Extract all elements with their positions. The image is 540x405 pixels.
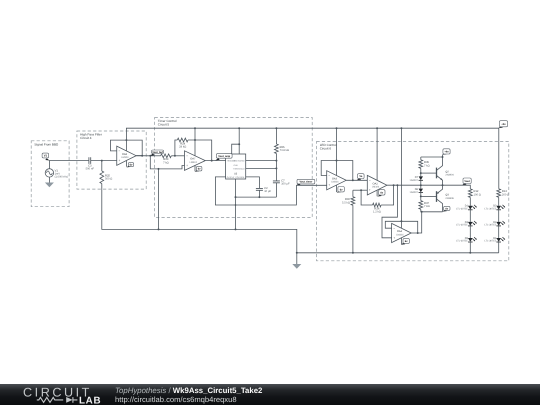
section box LED Control Circuit 6 [317, 142, 509, 261]
resistor R12 100 &#937; [468, 189, 480, 198]
node label Vout [462, 178, 471, 185]
transistor Q2 2N3904 [437, 155, 455, 186]
op-amp OA7 LM324 [185, 151, 206, 171]
wire bus tap to OA4 plus [382, 185, 397, 238]
wire OA2 V+ stub [376, 128, 378, 180]
junction Q3 base node [420, 195, 422, 197]
junction ground dropper [158, 168, 160, 170]
wire U3 OUTPUT to Vout_timer [215, 177, 296, 205]
svg-text:10 µF: 10 µF [264, 190, 271, 193]
junction OA4 V+ on rail [400, 127, 402, 129]
svg-text:OA8: OA8 [122, 153, 128, 156]
wire R35 lead top [420, 157, 422, 160]
wire R35 to Q2 base node [420, 168, 422, 176]
wire C7 to ground wire [275, 183, 277, 197]
wire ground stub [296, 253, 298, 264]
junction OA8 V+ on feedback [125, 139, 127, 141]
wire Vout_buf to R23 [150, 155, 160, 157]
svg-text:−: − [369, 178, 371, 182]
LED D5 LTL-307EE [456, 237, 477, 243]
power label 6v at OA3 [337, 187, 345, 193]
LED D4 LTL-307EE [484, 221, 505, 227]
svg-text:500 Ω: 500 Ω [105, 178, 112, 181]
svg-text:2N3904: 2N3904 [445, 174, 454, 177]
wire R12 to D1 [469, 197, 471, 205]
voltage source V1 [45, 169, 68, 179]
svg-text:+: + [186, 164, 188, 168]
op-amp OA2 LM324 [367, 175, 387, 195]
wire V1 to C3 [49, 161, 89, 169]
svg-text:LTL-307EE: LTL-307EE [484, 240, 496, 243]
node label Vout_timer [296, 179, 315, 185]
junction OA4 tap on bus [396, 184, 398, 186]
svg-text:−: − [118, 149, 120, 153]
svg-text:1N4007: 1N4007 [410, 179, 419, 182]
svg-text:GND: GND [233, 164, 238, 167]
wire OA7 V- stub [194, 165, 196, 171]
op-amp OA3 LM324 [327, 171, 347, 190]
junction OA4 output at R37 wire [421, 211, 423, 213]
svg-text:OA7: OA7 [190, 158, 196, 161]
power label +9v at rail end [499, 121, 508, 128]
wire OA8 V+ stub [125, 140, 127, 151]
wire C3 to R25 node [91, 160, 117, 162]
ground symbol main [292, 264, 301, 269]
svg-text:+9v: +9v [501, 123, 506, 126]
svg-text:73.8 kΩ: 73.8 kΩ [280, 149, 289, 152]
wire R23 to OA7 minus [171, 155, 184, 157]
svg-text:200 Ω: 200 Ω [502, 193, 509, 196]
svg-text:LM324: LM324 [396, 233, 404, 236]
wire D4 to D6 [498, 226, 500, 238]
svg-text:Vout_amp: Vout_amp [218, 155, 230, 158]
svg-text:−: − [186, 154, 188, 158]
junction R35 top at collector [442, 156, 444, 158]
wire U3 DISCHARGE to R26 node [246, 160, 277, 162]
resistor R36 1.2 k&#937; [373, 203, 382, 213]
wire OA8 V- stub [125, 161, 127, 167]
svg-text:+: + [393, 236, 395, 240]
wire C2 to ground wire [258, 190, 260, 197]
wire OA7 output to 555 TRIGGER [205, 160, 225, 162]
footer bar [0, 384, 540, 405]
svg-text:+9v: +9v [444, 150, 449, 153]
svg-text:DISCHARGE: DISCHARGE [233, 160, 245, 163]
wire Vout_timer to OA3 plus [296, 184, 326, 186]
svg-text:LTL-307EE: LTL-307EE [484, 208, 496, 211]
wire R30 column top [352, 190, 354, 197]
op-amp OA4 LM324 [392, 223, 412, 242]
wire R36 feedback right [381, 185, 394, 205]
svg-text:7 kΩ: 7 kΩ [424, 164, 430, 167]
resistor R23 7 k&#937; [161, 154, 172, 164]
node label V1 [42, 153, 50, 160]
node label Vout_amp [215, 154, 232, 161]
capacitor C2 10 &#181;F [256, 187, 272, 193]
resistor R35 7 k&#937; [419, 160, 430, 169]
svg-text:OA2: OA2 [373, 182, 379, 185]
LED D1 LTL-307EE [456, 205, 477, 211]
LED D6 LTL-307EE [484, 237, 505, 243]
wire OA4 feedback loop [385, 221, 417, 233]
junction C2 ground [258, 196, 260, 198]
wire R26 to C7 [275, 154, 277, 181]
wire R13 to D2 [498, 197, 500, 206]
svg-text:LM324: LM324 [190, 161, 198, 164]
junction OA7 V+ on rail [194, 127, 196, 129]
wire D8 to Q3 base node [420, 193, 422, 201]
svg-text:Signal From BBD: Signal From BBD [34, 142, 59, 146]
wire U3 reset L-bend [232, 144, 240, 154]
plot url text [115, 395, 237, 404]
resistor R37 7 k&#937; [419, 201, 430, 210]
svg-text:1.2 kΩ: 1.2 kΩ [373, 211, 381, 214]
junction OA3 output feedback [352, 179, 354, 181]
wire R24 to OA7 output [188, 140, 212, 161]
svg-text:LTL-307EE: LTL-307EE [456, 224, 468, 227]
resistor R25 500 &#937; [100, 171, 112, 184]
svg-text:+: + [118, 159, 120, 163]
wire D6 to return rail [498, 242, 500, 253]
junction OA7 output feedback [211, 160, 213, 162]
wire R37 bottom to 6v [421, 209, 443, 212]
svg-text:7 kΩ: 7 kΩ [163, 161, 169, 164]
junction discharge at R26 line [275, 160, 277, 162]
diode D8 1N4007 [410, 188, 423, 194]
junction OA3 V+ crossing feedback [336, 160, 338, 162]
junction OA8 output feedback [141, 155, 143, 157]
power label +9v at Q2 [442, 149, 450, 155]
timer IC U3 555 [226, 154, 246, 179]
wire R35 top to Q2 collector line [421, 156, 443, 158]
section box High Pass Filter Circuit 4 [77, 131, 146, 189]
capacitor C7 100 &#181;F [273, 180, 290, 186]
resistor R30 5.5 k&#937; [342, 197, 355, 206]
junction U3 ground on long bus [235, 228, 237, 230]
wire R24 left vertical [175, 140, 177, 156]
op-amp OA8 LM324 [117, 146, 136, 165]
resistor R26 73.8 k&#937; [275, 144, 289, 154]
svg-text:+: + [369, 188, 371, 192]
svg-text:−: − [393, 226, 395, 230]
power label 6v at OA7 [195, 166, 202, 171]
wire V1 to ground [48, 177, 50, 182]
wire D7 to bus [420, 180, 422, 188]
node label Va [357, 174, 364, 180]
wire R30 to LED return rail [352, 205, 354, 253]
svg-text:LTL-307EE: LTL-307EE [484, 224, 496, 227]
wire U3 THRESHOLD to R26 node [246, 167, 277, 169]
wire +9v top rail [126, 128, 498, 189]
junction U3 top pins [238, 143, 240, 145]
transistor Q3 2N3906 [437, 185, 455, 212]
wire OA2 plus input [353, 189, 367, 191]
junction OA2 V+ on rail [376, 127, 378, 129]
svg-text:Circuit 4: Circuit 4 [80, 136, 92, 140]
LED D2 LTL-307EE [484, 205, 505, 211]
wire OA3 V+ stub [336, 128, 338, 175]
wire Q3 base [421, 195, 437, 197]
wire R36 feedback left [361, 190, 373, 205]
wire timer local ground [236, 196, 277, 198]
junction OA4 output feedback [417, 232, 419, 234]
resistor R13 200 &#937; [497, 189, 509, 198]
section box Timer Control Circuit 5 [155, 118, 313, 218]
wire OA3 output to OA2 minus [346, 179, 367, 181]
LED D3 LTL-307EE [456, 221, 477, 227]
wire R25 to ground bus [102, 184, 297, 253]
svg-text:THRESHOLD: THRESHOLD [233, 167, 245, 170]
junction OA7 V+ crossing R24 wire [194, 139, 196, 141]
wire OA3 V- stub [336, 185, 338, 192]
svg-text:−: − [328, 174, 330, 178]
wire U3 CONTROL to C2 [246, 177, 260, 189]
junction OA4 V+ crossing feedback [400, 220, 402, 222]
wire dropper to ground bus [158, 169, 160, 230]
power label 6v at OA4 [401, 239, 410, 245]
wire D1 to D3 [469, 210, 471, 222]
svg-text:5.5 kΩ: 5.5 kΩ [342, 201, 350, 204]
wire OA7 V+ stub [194, 128, 196, 156]
svg-text:LM324: LM324 [331, 181, 339, 184]
junction R26 on rail [275, 127, 277, 129]
capacitor C3 500 nF [86, 157, 95, 170]
wire D3 to D5 [469, 226, 471, 238]
junction left LED column on rail [469, 252, 471, 254]
wire OA8 output to Vout_buf node [136, 155, 150, 157]
svg-text:Vout_timer: Vout_timer [299, 181, 312, 184]
svg-text:LAB: LAB [79, 395, 101, 405]
svg-text:28 kΩ: 28 kΩ [179, 146, 186, 149]
wire Q2 base [421, 172, 437, 174]
junction U3 ground at bus wire [235, 196, 237, 198]
ground under V1 [45, 183, 54, 188]
wire R25 top lead [101, 161, 103, 171]
svg-text:Circuit 5: Circuit 5 [158, 123, 170, 127]
junction OA3 V+ on rail [336, 127, 338, 129]
svg-text:500 nF: 500 nF [86, 168, 95, 171]
svg-text:100 µF: 100 µF [281, 183, 290, 186]
node label Vout_buf [150, 150, 164, 156]
wire OA4 V- stub [400, 238, 402, 244]
svg-text:OA4: OA4 [397, 230, 403, 233]
section box Signal From BBD [31, 141, 69, 207]
junction R30 on return rail [352, 252, 354, 254]
wire OA3 feedback loop [321, 161, 353, 181]
svg-text:V1: V1 [44, 155, 48, 158]
wire OA2 V- stub [376, 190, 378, 196]
wire D5 to return rail [469, 242, 471, 253]
wire OA2 output bus [387, 185, 470, 189]
svg-text:LTL-307EE: LTL-307EE [456, 208, 468, 211]
wire OA4 V+ stub [400, 128, 402, 228]
svg-text:Vout: Vout [464, 180, 470, 183]
wire LED return rail [297, 252, 499, 254]
junction output crossing [235, 204, 237, 206]
power label 6v at OA8 [127, 163, 134, 168]
CircuitLab logo [0, 384, 115, 405]
wire rail to R26 [275, 128, 277, 144]
junction C3/R25/OA8 [101, 160, 103, 162]
svg-text:2N3906: 2N3906 [445, 197, 454, 200]
wire U3 GND stub to ground bus [235, 179, 237, 229]
junction Q2 base node [420, 172, 422, 174]
svg-text:OA3: OA3 [332, 177, 338, 180]
junction Vout_buf [149, 155, 151, 157]
junction R36 at OA2 plus [360, 189, 362, 191]
wire OA4 output up [411, 212, 422, 233]
junction threshold at R26 line [275, 167, 277, 169]
wire D2 to D4 [498, 210, 500, 222]
junction U3 VCC on rail [238, 127, 240, 129]
svg-text:Circuit 6: Circuit 6 [320, 147, 332, 151]
svg-text:100 Ω: 100 Ω [474, 193, 481, 196]
power label 6v at Q3 collector [443, 206, 451, 211]
junction diode midpoint on bus [420, 184, 422, 186]
plot title text [115, 386, 262, 395]
svg-text:(1.000 kHz): (1.000 kHz) [55, 176, 69, 179]
svg-text:7 kΩ: 7 kΩ [424, 205, 430, 208]
svg-text:CONTROL: CONTROL [235, 176, 244, 179]
diode D7 1N4007 [410, 176, 423, 182]
junction ground node [296, 252, 298, 254]
svg-text:LM324: LM324 [121, 156, 129, 159]
junction OA2 feedback on bus [393, 184, 395, 186]
resistor R24 28 k&#937; [177, 138, 188, 148]
wire rail to U3 VCC pins [238, 128, 240, 154]
power label 6v at OA2 [377, 190, 385, 197]
svg-text:+: + [328, 183, 330, 187]
junction R23/R24 at OA7 minus [174, 155, 176, 157]
svg-text:LM324: LM324 [372, 186, 380, 189]
junction dropper on ground bus [158, 228, 160, 230]
wire Vout_buf down to OA7 plus [150, 156, 184, 169]
svg-text:1N4007: 1N4007 [410, 191, 419, 194]
svg-text:LTL-307EE: LTL-307EE [456, 240, 468, 243]
junction emitters on bus [442, 184, 444, 186]
svg-text:OUTPUT: OUTPUT [227, 176, 236, 179]
wire OA8 feedback loop [110, 140, 142, 156]
